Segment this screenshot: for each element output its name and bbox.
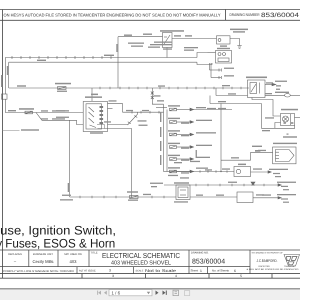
wire glow plugs run: [216, 88, 300, 96]
svg-text:ON HESYS AUTOCAD FILE STORED: ON HESYS AUTOCAD FILE STORED IN TEAMCENT…: [4, 12, 221, 17]
svg-text:M/C USED ON: M/C USED ON: [64, 253, 81, 256]
label starter solenoid: [230, 29, 248, 31]
svg-text:853/60004: 853/60004: [261, 12, 300, 19]
connector/fuse diagonal K1: [128, 112, 138, 125]
svg-text:& MAY NOT BE COPIED OR RE-PROD: & MAY NOT BE COPIED OR RE-PRODUCED: [247, 268, 300, 271]
svg-text:403: 403: [70, 259, 78, 264]
svg-text:use, Ignition Switch,: use, Ignition Switch,: [0, 223, 116, 237]
starter solenoid SOL: [217, 36, 231, 44]
fuse row 6: [170, 170, 194, 173]
svg-text:6: 6: [234, 269, 236, 273]
toolbar strip: [0, 288, 300, 300]
wire w/l loop: [252, 98, 295, 129]
label to neutral relay: [184, 47, 198, 48]
label alternator W row: [224, 75, 234, 76]
svg-text:SCALE: SCALE: [136, 269, 144, 272]
svg-text:1 / 6: 1 / 6: [112, 291, 121, 296]
wire water temp run: [221, 153, 273, 161]
wire battery to switch (lower): [5, 112, 83, 114]
sheet left border: [2, 10, 4, 279]
label glow plug relay: [246, 77, 267, 79]
label horn switch: [174, 182, 189, 183]
svg-text:4: 4: [175, 274, 177, 278]
labels to earth stud x3: [262, 169, 296, 203]
label key below switch: [90, 132, 103, 133]
label 4b rd wires: [41, 110, 48, 111]
label 1.4 WH wts: [258, 150, 266, 151]
wire bottom row 2: [164, 184, 278, 187]
ESOS module: [237, 192, 253, 203]
wire bus 2: [9, 61, 197, 63]
junction X at 152,94: [151, 88, 167, 107]
JCB logo: [284, 255, 300, 267]
wire alternator W row: [211, 63, 222, 79]
svg-text:5: 5: [240, 274, 242, 278]
label 0.5 BN: [228, 93, 236, 94]
wire relay out arrow: [265, 83, 276, 85]
label primary fuse 3: [55, 83, 71, 85]
label wh30b bus: [104, 55, 114, 56]
label neutral start relay: [160, 30, 184, 32]
wire ladder to horn: [176, 170, 234, 173]
label wh30b top: [143, 34, 152, 35]
ignition switch S1 inner: [86, 104, 105, 129]
glow plug connector CN1: [273, 147, 296, 164]
svg-text:THIS DRAWING IS THE PROPERTY O: THIS DRAWING IS THE PROPERTY OF: [252, 252, 284, 255]
label water temp: [252, 146, 262, 152]
glow plug warning lamp L1: [281, 114, 301, 126]
earth arrow 3: [278, 197, 281, 199]
fuse row 3: [170, 133, 194, 136]
fuse ladder buses: [152, 104, 176, 171]
svg-text:COMPLY WITH JCB STANDARD N: COMPLY WITH JCB STANDARD NOTE 7000/5000: [3, 270, 75, 273]
label 4B WH lower: [262, 130, 270, 131]
label 0.5bk: [255, 151, 260, 152]
label alternator D+ row: [224, 68, 234, 69]
svg-text:DRAWING NO.: DRAWING NO.: [191, 252, 209, 255]
fuse row 4: [170, 146, 194, 149]
svg-text:Not to Scale: Not to Scale: [145, 268, 177, 273]
svg-text:3: 3: [112, 274, 114, 278]
nav first/prev arrows: [97, 291, 107, 295]
label rotated 4b bk left bottom: [68, 183, 69, 192]
fuse row 1: [170, 108, 233, 111]
label 4b wh junction: [154, 95, 161, 96]
nav next/last arrows: [156, 291, 167, 295]
glow plug relay K3: [248, 80, 266, 98]
label 403 alternator: [220, 45, 227, 46]
label horn: [238, 164, 246, 166]
svg-text:TITLE: TITLE: [91, 252, 98, 255]
wire bottom long run: [70, 196, 176, 199]
primary fuse F3: [58, 87, 67, 90]
glow plugs GP: [285, 94, 291, 97]
fuse row 2: [170, 121, 194, 124]
label wh30b left: [17, 85, 26, 86]
svg-text:No. of Sheets: No. of Sheets: [212, 268, 230, 272]
wire alternator left: [208, 52, 216, 54]
label rotated x118: [116, 44, 117, 52]
fuse ladder rows: [170, 108, 233, 173]
horn switch S2: [176, 185, 190, 200]
horn H1: [234, 167, 251, 177]
svg-text:Cecily Mills: Cecily Mills: [33, 259, 54, 264]
earth arrow 2: [278, 184, 281, 186]
svg-text:TRANSPNC: TRANSPNC: [284, 265, 296, 268]
label wh30a wires right of switch: [109, 100, 117, 101]
alternator ALT: [216, 51, 232, 64]
label ets gnd 2: [56, 110, 69, 111]
svg-text:J.C.BAMFORD.: J.C.BAMFORD.: [257, 259, 278, 263]
label rotated 4B BK right col: [196, 150, 197, 158]
svg-text:DRAWING NUMBER: DRAWING NUMBER: [230, 13, 260, 17]
wire horn to earth: [251, 171, 269, 173]
battery B1: [2, 58, 9, 113]
svg-text:ALT AT ISSUE: ALT AT ISSUE: [79, 270, 96, 273]
label left rotated bat: [1, 75, 2, 87]
label to beacon cluster: [62, 195, 71, 196]
wire right vertical to horn: [220, 104, 221, 173]
fuse row 5: [170, 158, 194, 161]
wire switch to bottom fuse run: [105, 129, 132, 198]
label wh glow: [266, 82, 273, 83]
primary fuse F1: [25, 111, 33, 114]
title block frame: [0, 250, 300, 274]
label water temp sw right: [283, 136, 297, 137]
label 1.0 RD: [222, 85, 230, 86]
wire feed to relay: [118, 37, 163, 88]
label w30b lower: [8, 110, 16, 111]
label primary fuse 1: [19, 108, 34, 110]
fuse F30 on bottom run: [130, 196, 139, 199]
ignition switch S1 outer box: [83, 102, 107, 132]
svg-text:ELECTRICAL SCHEMATIC: ELECTRICAL SCHEMATIC: [102, 251, 180, 260]
caption sheet title: [0, 223, 116, 250]
icon 2: [185, 291, 190, 296]
label fuse 4b bottom: [127, 191, 138, 192]
wire battery feed to primary fuse 3: [9, 87, 249, 90]
wire branch to lower run: [36, 113, 83, 125]
label to glow plugs: [275, 81, 289, 93]
label glow w/l wire: [265, 117, 274, 118]
label 0.5 RD: [265, 93, 272, 94]
icon page: [173, 290, 179, 295]
wire alternator D+ row: [210, 63, 222, 72]
svg-text:y Fuses, ESOS & Horn: y Fuses, ESOS & Horn: [0, 236, 115, 250]
diode D1: [251, 182, 255, 185]
label 403 ignition switch: [91, 94, 98, 96]
svg-text:3: 3: [109, 269, 111, 273]
wire lower run: [210, 96, 262, 104]
svg-text:853/60004: 853/60004: [192, 257, 225, 265]
wire drop to horn run: [69, 120, 71, 197]
label glow plug connector: [273, 143, 297, 144]
wires ignition switch outputs: [108, 104, 164, 125]
label ets gnd: [21, 129, 39, 130]
ground G1: [237, 46, 241, 49]
wire elbow to alternator: [197, 53, 208, 58]
earth arrow 1: [268, 171, 271, 173]
svg-text:Sheet: Sheet: [191, 268, 199, 272]
wire elbow bus2 down: [197, 62, 212, 64]
sheet top band: [0, 9, 300, 20]
neutral start relay K2: [163, 33, 173, 48]
wire bus 30B top: [5, 56, 197, 59]
wire relay bottom to bus: [166, 48, 168, 58]
svg-text:403 WHEELED SHOVEL: 403 WHEELED SHOVEL: [111, 260, 172, 267]
label rd30b bus2: [37, 60, 46, 61]
label neutral clute block: [154, 42, 172, 43]
label 4B WH wire: [218, 101, 226, 102]
svg-text:ROCESTER: ROCESTER: [259, 265, 271, 268]
svg-text:BUSINESS UNIT: BUSINESS UNIT: [33, 253, 53, 256]
ladder row labels: [160, 105, 226, 178]
top band text: [4, 12, 300, 19]
wire bottom row 3: [190, 196, 278, 199]
wire relay to starter solenoid: [172, 38, 217, 40]
wire ignition feed drop: [91, 88, 93, 101]
svg-text:REPLACES: REPLACES: [8, 253, 22, 256]
sheet bottom border: [0, 274, 300, 279]
label glow plug w/l: [281, 109, 298, 111]
page input box: [109, 290, 152, 296]
svg-text:1: 1: [200, 269, 202, 273]
label 1.4wh mid: [228, 182, 237, 183]
wire solenoid to ground: [230, 39, 240, 46]
